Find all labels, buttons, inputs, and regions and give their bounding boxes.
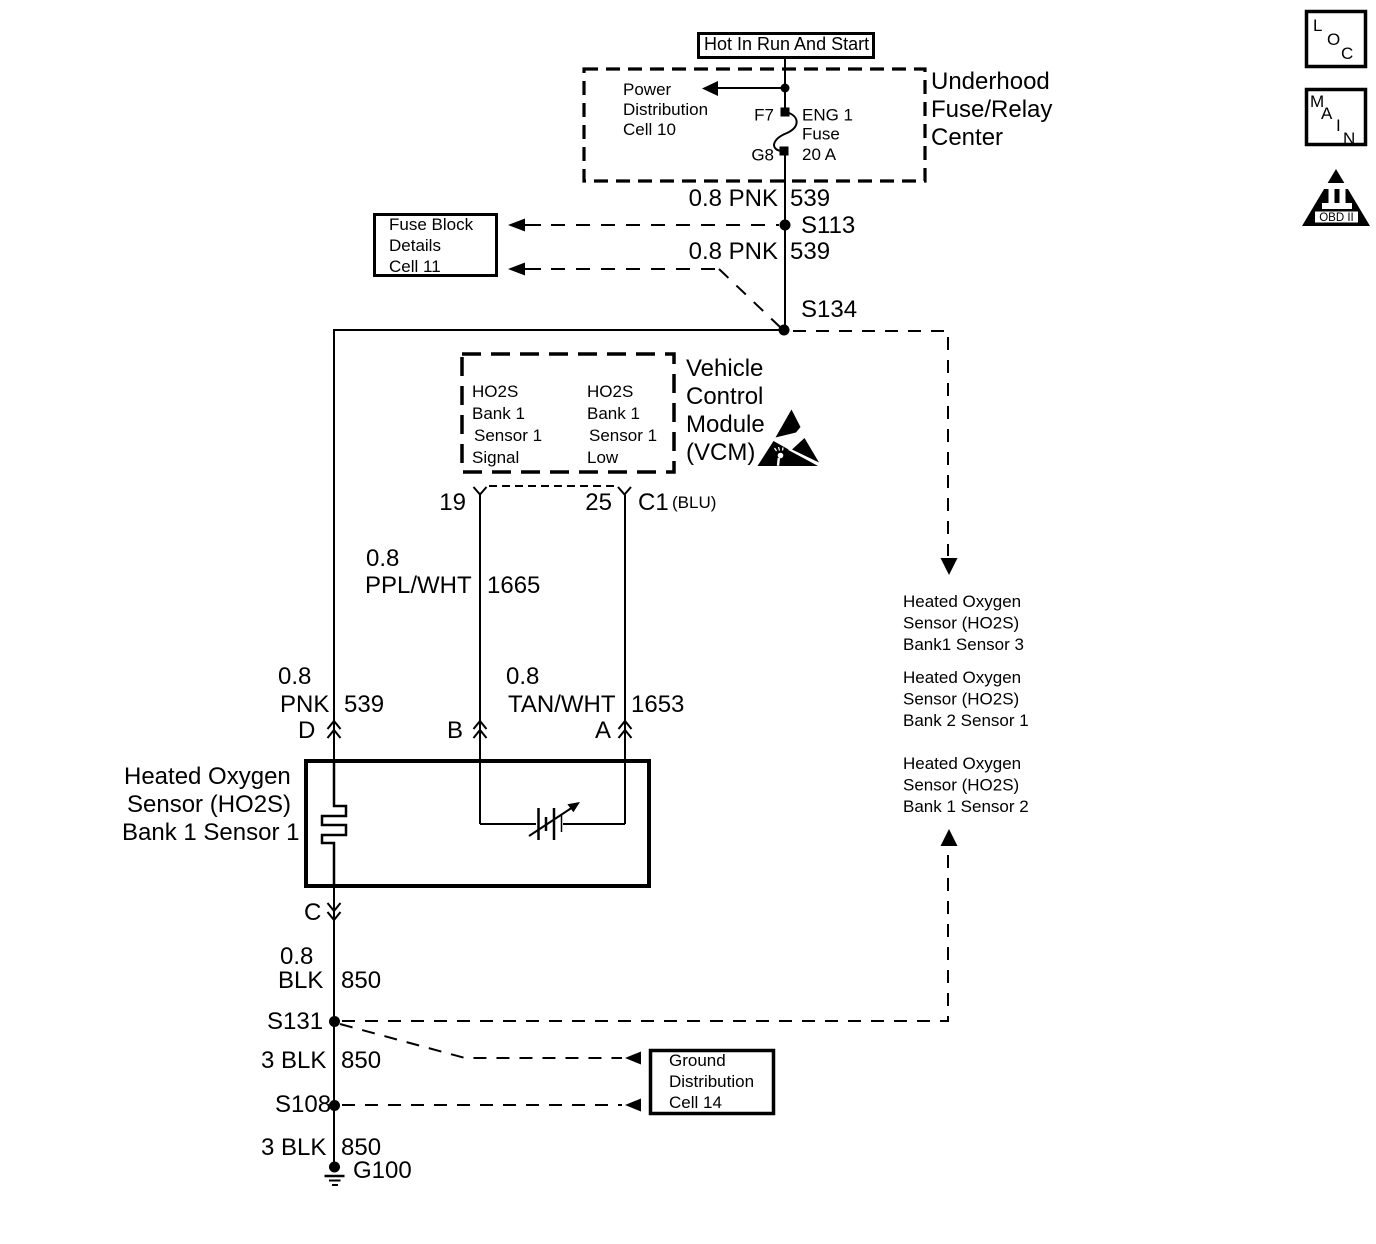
svg-text:Center: Center <box>931 124 1003 151</box>
value label: ENG 1 Fuse 20 A <box>802 106 853 165</box>
svg-text:Cell 10: Cell 10 <box>623 120 676 139</box>
svg-text:19: 19 <box>439 489 466 516</box>
heater element inside HO2S <box>322 761 346 886</box>
svg-text:G100: G100 <box>353 1157 412 1184</box>
svg-text:3 BLK: 3 BLK <box>261 1047 326 1074</box>
arrow: to Power Distribution Cell 10 <box>702 81 785 96</box>
svg-text:539: 539 <box>790 185 830 212</box>
svg-text:Sensor (HO2S): Sensor (HO2S) <box>903 776 1019 795</box>
svg-text:Cell 14: Cell 14 <box>669 1093 722 1112</box>
svg-text:S108: S108 <box>275 1091 331 1118</box>
underhood fuse/relay center dashed box <box>584 69 925 181</box>
svg-text:Fuse/Relay: Fuse/Relay <box>931 96 1052 123</box>
wire: fuse G8 down to splice S113 <box>784 155 786 225</box>
svg-text:Fuse: Fuse <box>802 125 840 144</box>
splice S113 <box>780 212 856 239</box>
wire label: 0.8 BLK 850 <box>278 943 381 994</box>
splice S131 <box>267 1008 340 1035</box>
svg-text:G8: G8 <box>751 146 774 165</box>
label: HO2S Bank 1 Sensor 1 Signal (VCM pin 19) <box>472 382 542 467</box>
splice S108 <box>275 1091 340 1118</box>
svg-text:OBD II: OBD II <box>1319 212 1354 224</box>
wire label: 0.8 PPL/WHT 1665 <box>365 545 540 599</box>
svg-text:O: O <box>1327 30 1340 49</box>
svg-text:0.8: 0.8 <box>506 663 539 690</box>
dashed reference: S108 to Ground Distribution with arrow <box>342 1099 641 1112</box>
reference box: Ground Distribution Cell 14 <box>651 1051 774 1114</box>
svg-text:ENG 1: ENG 1 <box>802 106 853 125</box>
svg-text:(BLU): (BLU) <box>672 493 716 512</box>
svg-text:Details: Details <box>389 236 441 255</box>
svg-text:0.8: 0.8 <box>278 663 311 690</box>
label: Vehicle Control Module (VCM) <box>686 355 765 466</box>
svg-text:Low: Low <box>587 448 619 467</box>
svg-text:0.8 PNK: 0.8 PNK <box>689 185 778 212</box>
dashed reference line: S113 to Fuse Block Details with arrow <box>508 219 779 232</box>
svg-text:0.8: 0.8 <box>366 545 399 572</box>
splice S134 <box>779 296 858 336</box>
svg-text:Control: Control <box>686 383 763 410</box>
svg-text:HO2S: HO2S <box>587 382 633 401</box>
symbol: LOC legend box <box>1307 12 1366 67</box>
svg-text:Distribution: Distribution <box>669 1072 754 1091</box>
svg-text:Signal: Signal <box>472 448 519 467</box>
wire: S113 down to splice S134 <box>784 225 786 330</box>
wire: S134 left and down to HO2S pin D <box>334 330 784 761</box>
symbol: OBD II <box>1302 169 1370 226</box>
svg-text:Hot In Run And Start: Hot In Run And Start <box>704 34 869 54</box>
wire label: 3 BLK 850 (S108 to G100) <box>261 1134 381 1161</box>
label: Power Distribution Cell 10 <box>623 80 708 139</box>
svg-text:Fuse Block: Fuse Block <box>389 215 474 234</box>
svg-text:Ground: Ground <box>669 1051 726 1070</box>
svg-text:850: 850 <box>341 1047 381 1074</box>
svg-text:Heated Oxygen: Heated Oxygen <box>903 592 1021 611</box>
wire label: 0.8 TAN/WHT 1653 <box>506 663 684 718</box>
svg-text:Heated Oxygen: Heated Oxygen <box>124 763 291 790</box>
junction: splice to Power Distribution feed <box>781 84 790 93</box>
wire label: 0.8 PNK 539 (fuse to S113) <box>689 185 830 212</box>
svg-text:Distribution: Distribution <box>623 100 708 119</box>
svg-text:Vehicle: Vehicle <box>686 355 763 382</box>
label: HO2S Bank 1 Sensor 1 Low (VCM pin 25) <box>587 382 657 467</box>
HO2S Bank 1 Sensor 1 component box <box>306 761 649 886</box>
svg-text:Heated Oxygen: Heated Oxygen <box>903 668 1021 687</box>
svg-text:S134: S134 <box>801 296 857 323</box>
pin A of HO2S <box>595 717 632 744</box>
svg-text:F7: F7 <box>754 106 774 125</box>
svg-text:Sensor 1: Sensor 1 <box>474 426 542 445</box>
svg-text:Bank 1: Bank 1 <box>472 404 525 423</box>
reference box: Fuse Block Details Cell 11 <box>375 215 497 277</box>
svg-text:C: C <box>304 899 321 926</box>
svg-text:D: D <box>298 717 315 744</box>
svg-text:Bank1 Sensor 3: Bank1 Sensor 3 <box>903 635 1024 654</box>
svg-text:0.8: 0.8 <box>280 943 313 970</box>
connector C1 (BLU), pins 19 and 25 <box>439 486 716 516</box>
svg-text:Bank 1 Sensor 2: Bank 1 Sensor 2 <box>903 797 1029 816</box>
svg-text:PPL/WHT: PPL/WHT <box>365 572 472 599</box>
dashed reference: S134 to HO2S Bank1 Sensor 3 (arrow down) <box>793 331 958 575</box>
svg-text:PNK: PNK <box>280 691 329 718</box>
svg-text:Bank 2 Sensor 1: Bank 2 Sensor 1 <box>903 711 1029 730</box>
svg-text:HO2S: HO2S <box>472 382 518 401</box>
svg-text:S131: S131 <box>267 1008 323 1035</box>
svg-text:Cell 11: Cell 11 <box>389 257 441 276</box>
wire: VCM pin 19 to HO2S pin B <box>479 494 481 761</box>
label: Hot In Run And Start box <box>699 34 874 58</box>
wire: VCM pin 25 to HO2S pin A <box>624 494 626 761</box>
label: Heated Oxygen Sensor (HO2S) Bank 1 Sensor 2 <box>903 754 1029 816</box>
label: Heated Oxygen Sensor (HO2S) Bank 2 Sensor 1 <box>903 668 1029 730</box>
svg-text:1665: 1665 <box>487 572 540 599</box>
wire label: 0.8 PNK 539 (S134 to pin D) <box>278 663 384 718</box>
dashed reference line: S134 to Fuse Block Details with arrow <box>508 263 780 328</box>
wire label: 0.8 PNK 539 (S113 to S134) <box>689 238 830 265</box>
svg-text:C1: C1 <box>638 489 669 516</box>
svg-text:(VCM): (VCM) <box>686 439 755 466</box>
symbol: MAIN legend box <box>1307 90 1366 149</box>
svg-text:25: 25 <box>585 489 612 516</box>
label: Heated Oxygen Sensor (HO2S) Bank 1 Sensor 1 <box>122 763 299 846</box>
svg-text:Bank 1 Sensor 1: Bank 1 Sensor 1 <box>122 819 299 846</box>
svg-text:Power: Power <box>623 80 672 99</box>
svg-text:TAN/WHT: TAN/WHT <box>508 691 616 718</box>
ESD sensitivity symbol U1 <box>758 410 823 467</box>
wire label: 3 BLK 850 (S131 to S108) <box>261 1047 381 1074</box>
pin D of HO2S (arrows up) <box>298 717 341 744</box>
pin B of HO2S <box>447 717 487 744</box>
svg-text:N: N <box>1343 129 1355 148</box>
variability arrow across sensing cell <box>529 802 580 836</box>
dashed reference: S131 to Ground Distribution with arrow <box>340 1024 641 1065</box>
svg-text:Sensor 1: Sensor 1 <box>589 426 657 445</box>
pin C of HO2S (arrows down) <box>304 899 341 926</box>
svg-text:L: L <box>1313 16 1322 35</box>
fuse ENG 1 20 A with terminals F7 / G8 <box>774 108 797 156</box>
wire: feed from Hot In Run And Start down into fuse center <box>784 59 786 88</box>
svg-text:539: 539 <box>344 691 384 718</box>
wire: junction down to fuse terminal F7 <box>784 88 786 108</box>
svg-text:20 A: 20 A <box>802 145 837 164</box>
svg-text:0.8 PNK: 0.8 PNK <box>689 238 778 265</box>
svg-text:BLK: BLK <box>278 967 323 994</box>
dashed reference: S131 to HO2S Bank 1 Sensor 2 (arrow up) <box>342 829 958 1021</box>
wire: HO2S pin C ground lead down to G100 <box>333 886 335 1167</box>
svg-text:B: B <box>447 717 463 744</box>
svg-text:Bank 1: Bank 1 <box>587 404 640 423</box>
svg-text:I: I <box>1336 116 1341 135</box>
sensing cell (variable voltage source) inside HO2S <box>480 761 625 840</box>
svg-text:A: A <box>1321 104 1333 123</box>
svg-text:Module: Module <box>686 411 765 438</box>
label: Heated Oxygen Sensor (HO2S) Bank1 Sensor 3 <box>903 592 1024 654</box>
svg-text:1653: 1653 <box>631 691 684 718</box>
svg-text:Underhood: Underhood <box>931 68 1050 95</box>
svg-text:S113: S113 <box>801 212 855 239</box>
svg-text:Sensor (HO2S): Sensor (HO2S) <box>903 614 1019 633</box>
svg-text:539: 539 <box>790 238 830 265</box>
ground G100 <box>325 1157 412 1185</box>
svg-text:850: 850 <box>341 967 381 994</box>
svg-text:Sensor (HO2S): Sensor (HO2S) <box>127 791 291 818</box>
svg-text:C: C <box>1341 44 1353 63</box>
svg-text:A: A <box>595 717 611 744</box>
label: Underhood Fuse/Relay Center <box>931 68 1052 151</box>
svg-text:Heated Oxygen: Heated Oxygen <box>903 754 1021 773</box>
svg-text:Sensor (HO2S): Sensor (HO2S) <box>903 690 1019 709</box>
svg-text:3 BLK: 3 BLK <box>261 1134 326 1161</box>
vehicle control module dashed box <box>462 354 674 472</box>
